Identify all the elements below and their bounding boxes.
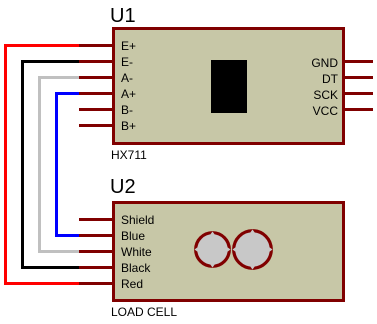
value label HX711	[111, 149, 147, 161]
wire net White gray bottom horizontal	[38, 250, 81, 253]
pin name E-	[121, 56, 133, 68]
pin name E+	[121, 40, 136, 52]
pin name Red	[121, 278, 143, 290]
module U2 LOAD CELL body	[112, 201, 345, 302]
pin B- stub U1	[79, 108, 112, 111]
pin name Blue	[121, 230, 145, 242]
pin White stub U2	[79, 250, 112, 253]
pin Blue stub U2	[79, 234, 112, 237]
pin name SCK	[313, 89, 338, 101]
pin Black stub U2	[79, 266, 112, 269]
pin name VCC	[313, 105, 338, 117]
pin Red stub U2	[79, 282, 112, 285]
wire net Red red bottom horizontal	[4, 282, 81, 285]
wire net A+ blue top horizontal	[55, 92, 81, 95]
pin A- stub U1	[79, 76, 112, 79]
pin DT stub U1	[345, 76, 373, 79]
pin name White	[121, 246, 152, 258]
pin name Black	[121, 262, 150, 274]
wire net E+ red vertical	[4, 44, 7, 285]
wire net A+ blue vertical	[55, 92, 58, 237]
pin name B+	[121, 120, 136, 132]
refdes label U2	[110, 177, 136, 197]
pin VCC stub U1	[345, 108, 373, 111]
pin E- stub U1	[79, 60, 112, 63]
pin name B-	[121, 104, 133, 116]
value label LOAD CELL	[111, 306, 177, 318]
pin SCK stub U1	[345, 92, 373, 95]
pin A+ stub U1	[79, 92, 112, 95]
pin name DT	[322, 73, 338, 85]
pin Shield stub U2	[79, 218, 112, 221]
IC chip black rectangle inside U1	[211, 60, 247, 113]
pin name Shield	[121, 214, 154, 226]
load cell large circle	[232, 229, 273, 270]
refdes label U1	[110, 6, 136, 26]
wire net Blue blue bottom horizontal	[55, 234, 81, 237]
wire net A- gray top horizontal	[38, 76, 81, 79]
wire net Black black bottom horizontal	[21, 266, 81, 269]
load cell small circle	[194, 231, 231, 268]
pin B+ stub U1	[79, 124, 112, 127]
pin name A-	[121, 72, 133, 84]
wire net E+ red top horizontal	[4, 44, 81, 47]
module U1 HX711 body	[112, 27, 345, 145]
wire net E- black top horizontal	[21, 60, 81, 63]
wire net A- gray vertical	[38, 76, 41, 253]
pin name GND	[311, 57, 338, 69]
pin GND stub U1	[345, 60, 373, 63]
pin name A+	[121, 88, 136, 100]
pin E+ stub U1	[79, 44, 112, 47]
wire net E- black vertical	[21, 60, 24, 269]
